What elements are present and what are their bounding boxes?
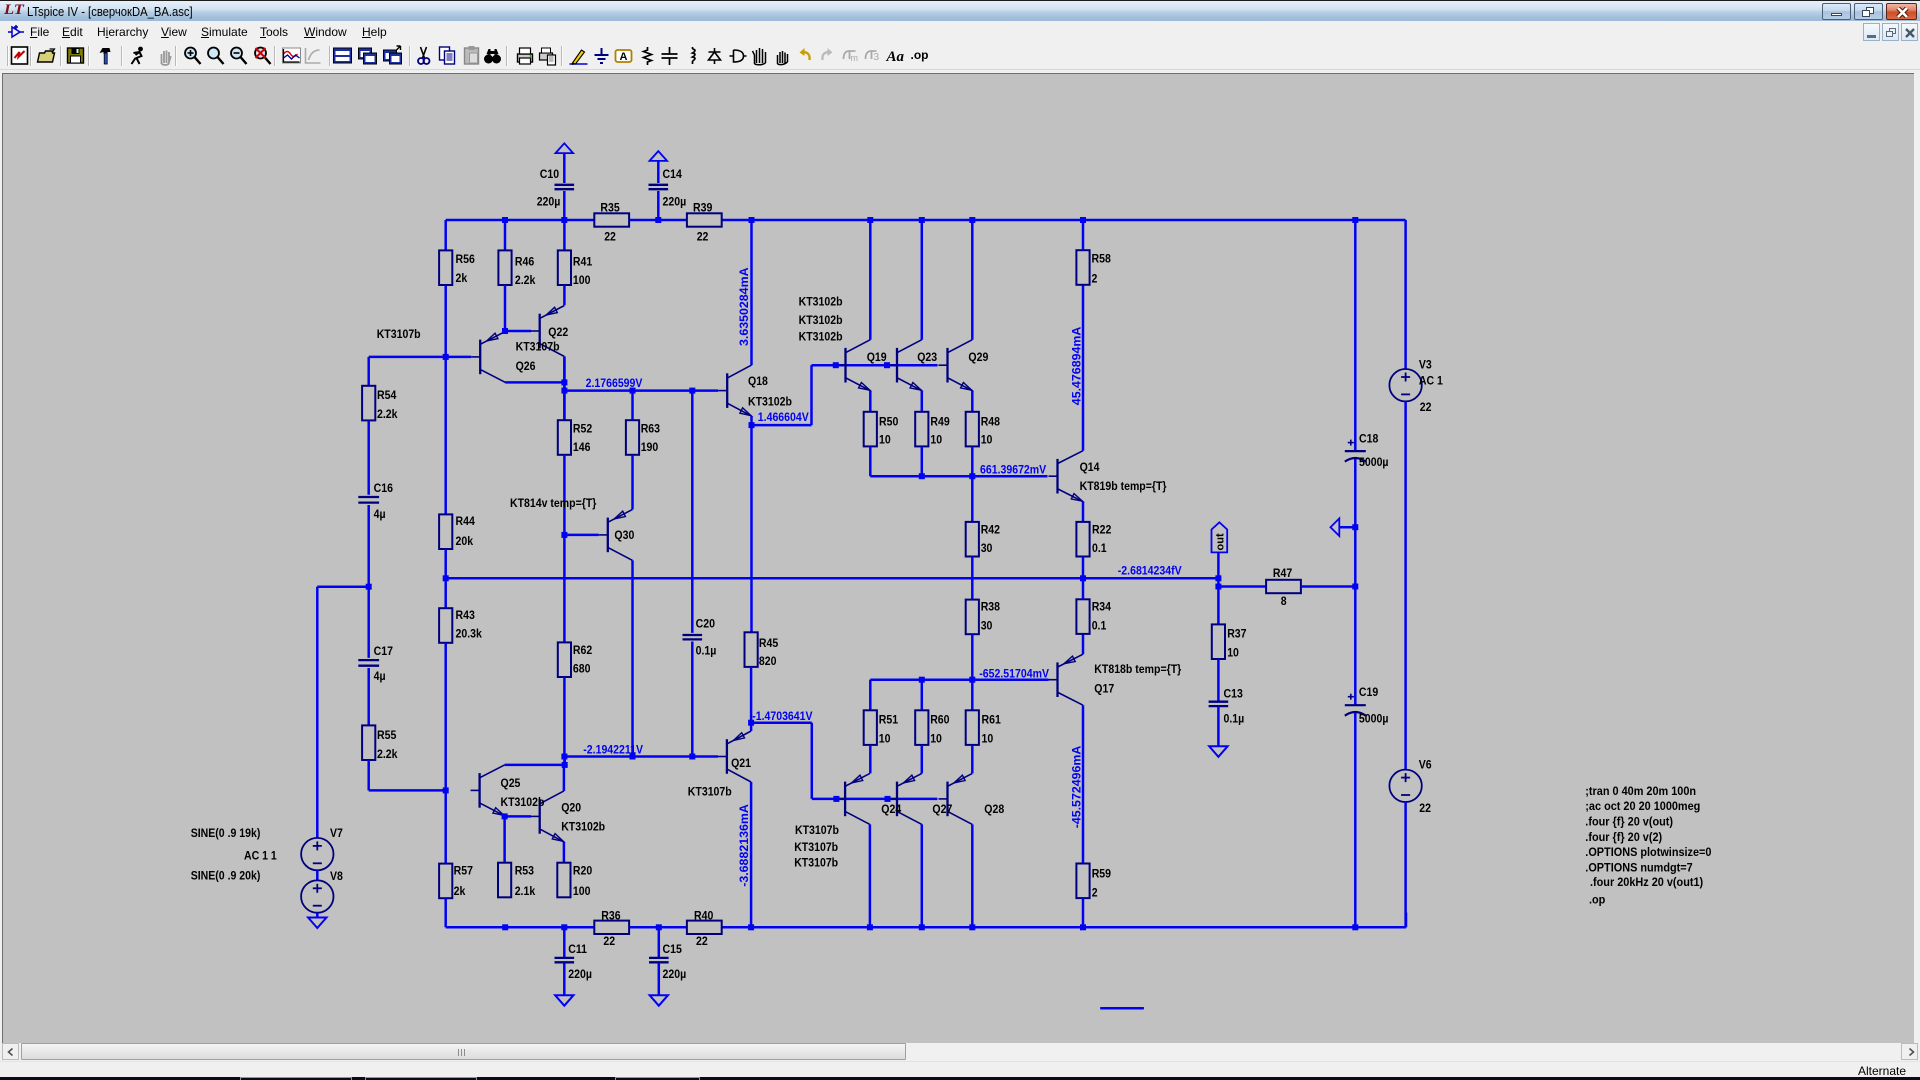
svg-text:3.6350284mA: 3.6350284mA: [737, 267, 751, 346]
svg-text:KT819b temp={T}: KT819b temp={T}: [1080, 480, 1167, 493]
svg-text:C18: C18: [1359, 433, 1379, 446]
svg-text:2: 2: [1092, 273, 1098, 286]
svg-text:3: 3: [874, 52, 880, 63]
svg-text:-1.4703641V: -1.4703641V: [752, 710, 813, 723]
svg-text:C19: C19: [1359, 687, 1378, 700]
svg-text:R53: R53: [515, 865, 534, 878]
svg-text:2: 2: [1092, 887, 1098, 900]
svg-text:220µ: 220µ: [663, 969, 687, 982]
svg-text:Q21: Q21: [731, 757, 751, 770]
svg-text:C20: C20: [696, 618, 715, 631]
svg-text:A: A: [620, 51, 628, 63]
svg-text:0.1: 0.1: [1092, 542, 1107, 555]
svg-text:C14: C14: [663, 168, 683, 181]
svg-text:KT3102b: KT3102b: [799, 331, 843, 344]
svg-text:KT3102b: KT3102b: [799, 314, 843, 327]
svg-text:AC 1: AC 1: [1419, 375, 1444, 388]
svg-text:Q14: Q14: [1080, 461, 1100, 474]
svg-text:820: 820: [759, 656, 777, 669]
svg-text:22: 22: [1420, 402, 1432, 415]
svg-text:10: 10: [930, 733, 942, 746]
svg-text:KT3107b: KT3107b: [516, 341, 560, 354]
svg-text:Q20: Q20: [561, 802, 581, 815]
svg-text:30: 30: [981, 620, 993, 633]
svg-text:0.1: 0.1: [1092, 620, 1107, 633]
svg-text:Q22: Q22: [548, 327, 568, 340]
svg-text:Q27: Q27: [932, 803, 952, 816]
svg-text:R42: R42: [981, 524, 1000, 537]
svg-text:R48: R48: [981, 416, 1001, 429]
svg-text:.op: .op: [1589, 893, 1605, 907]
svg-text:Q25: Q25: [501, 777, 521, 790]
svg-text:C13: C13: [1224, 688, 1243, 701]
svg-text:45.476894mA: 45.476894mA: [1070, 327, 1084, 406]
svg-text:;ac oct 20 20 1000meg: ;ac oct 20 20 1000meg: [1585, 799, 1700, 813]
svg-text:KT3107b: KT3107b: [794, 841, 838, 854]
svg-text:V8: V8: [330, 870, 343, 883]
svg-text:R44: R44: [456, 515, 476, 528]
svg-text:SINE(0 .9 19k): SINE(0 .9 19k): [191, 828, 261, 841]
svg-text:Q18: Q18: [748, 375, 768, 388]
svg-text:R43: R43: [456, 609, 475, 622]
svg-text:-2.6814234fV: -2.6814234fV: [1118, 565, 1182, 578]
svg-text:R55: R55: [377, 730, 397, 743]
svg-text:.OPTIONS numdgt=7: .OPTIONS numdgt=7: [1585, 861, 1692, 875]
svg-text:20k: 20k: [456, 536, 474, 549]
svg-text:R56: R56: [456, 254, 475, 267]
svg-text:KT3102b: KT3102b: [799, 296, 843, 309]
svg-text:0.1µ: 0.1µ: [1224, 713, 1245, 726]
svg-text:KT814v temp={T}: KT814v temp={T}: [510, 497, 597, 510]
svg-text:Q26: Q26: [516, 360, 536, 373]
svg-text:KT3102b: KT3102b: [748, 396, 792, 409]
svg-text:10: 10: [1227, 647, 1239, 660]
svg-text:Q17: Q17: [1094, 683, 1114, 696]
svg-text:10: 10: [879, 733, 891, 746]
svg-text:100: 100: [573, 274, 591, 287]
svg-text:R54: R54: [377, 389, 397, 402]
svg-text:.OPTIONS plotwinsize=0: .OPTIONS plotwinsize=0: [1585, 845, 1711, 859]
svg-text:V3: V3: [1419, 359, 1432, 372]
svg-text:.four 20kHz 20 v(out1): .four 20kHz 20 v(out1): [1590, 875, 1703, 889]
svg-text:22: 22: [696, 935, 708, 948]
svg-text:R35: R35: [600, 202, 620, 215]
svg-text:100: 100: [573, 885, 591, 898]
svg-text:;tran 0 40m 20m 100n: ;tran 0 40m 20m 100n: [1585, 784, 1696, 798]
svg-text:22: 22: [697, 231, 709, 244]
svg-text:R41: R41: [573, 256, 593, 269]
svg-text:0.1µ: 0.1µ: [696, 645, 717, 658]
svg-text:8: 8: [1281, 595, 1287, 608]
svg-text:KT3107b: KT3107b: [688, 786, 732, 799]
svg-text:R22: R22: [1092, 524, 1111, 537]
svg-text:Aa: Aa: [886, 49, 905, 65]
svg-text:20.3k: 20.3k: [456, 628, 483, 641]
svg-text:190: 190: [641, 441, 659, 454]
svg-text:Q19: Q19: [867, 351, 887, 364]
svg-text:SINE(0 .9 20k): SINE(0 .9 20k): [191, 870, 261, 883]
svg-text:R49: R49: [930, 416, 949, 429]
svg-text:R62: R62: [573, 644, 592, 657]
svg-text:4µ: 4µ: [374, 508, 386, 521]
svg-text:2k: 2k: [456, 272, 468, 285]
svg-text:2.2k: 2.2k: [515, 274, 536, 287]
svg-text:R36: R36: [601, 910, 620, 923]
svg-text:.four {f} 20 v(2): .four {f} 20 v(2): [1585, 830, 1662, 844]
svg-text:KT3102b: KT3102b: [501, 797, 545, 810]
svg-text:KT3107b: KT3107b: [795, 824, 839, 837]
svg-text:R58: R58: [1092, 253, 1112, 266]
svg-text:C10: C10: [540, 168, 559, 181]
svg-text:R20: R20: [573, 865, 592, 878]
svg-text:2.1k: 2.1k: [515, 885, 536, 898]
svg-text:R50: R50: [879, 416, 898, 429]
svg-text:22: 22: [1419, 802, 1431, 815]
svg-text:.op: .op: [911, 48, 929, 62]
svg-text:10: 10: [879, 434, 891, 447]
svg-text:10: 10: [982, 733, 994, 746]
svg-text:R40: R40: [694, 910, 713, 923]
svg-text:-652.51704mV: -652.51704mV: [979, 668, 1049, 681]
svg-text:C11: C11: [568, 944, 587, 957]
svg-text:R45: R45: [759, 637, 779, 650]
svg-text:R34: R34: [1092, 601, 1112, 614]
svg-text:Q29: Q29: [968, 351, 988, 364]
svg-text:R63: R63: [641, 423, 660, 436]
svg-text:2.2k: 2.2k: [377, 748, 398, 761]
svg-text:Q24: Q24: [881, 803, 901, 816]
svg-text:R39: R39: [693, 202, 712, 215]
svg-text:30: 30: [981, 542, 993, 555]
svg-text:680: 680: [573, 663, 591, 676]
svg-text:1.466604V: 1.466604V: [758, 412, 809, 425]
svg-text:R37: R37: [1227, 628, 1246, 641]
svg-text:146: 146: [573, 441, 591, 454]
svg-text:Q30: Q30: [614, 529, 634, 542]
svg-text:KT3107b: KT3107b: [377, 328, 421, 341]
svg-text:2.1766599V: 2.1766599V: [586, 377, 643, 390]
svg-text:R61: R61: [982, 714, 1002, 727]
svg-text:C16: C16: [374, 482, 393, 495]
svg-text:m: m: [851, 53, 859, 63]
svg-text:R47: R47: [1273, 568, 1292, 581]
svg-text:R38: R38: [981, 601, 1001, 614]
svg-text:C17: C17: [374, 645, 393, 658]
svg-text:R57: R57: [454, 865, 473, 878]
svg-text:out: out: [1215, 533, 1227, 550]
svg-text:V7: V7: [330, 828, 343, 841]
svg-text:22: 22: [604, 231, 616, 244]
svg-text:R59: R59: [1092, 868, 1111, 881]
svg-text:10: 10: [930, 434, 942, 447]
svg-text:220µ: 220µ: [663, 196, 687, 209]
svg-text:-45.572496mA: -45.572496mA: [1070, 746, 1084, 829]
svg-text:4µ: 4µ: [374, 670, 386, 683]
svg-text:KT3102b: KT3102b: [561, 821, 605, 834]
svg-text:-2.1942211V: -2.1942211V: [583, 744, 643, 757]
svg-text:5000µ: 5000µ: [1359, 456, 1389, 469]
svg-text:-3.6882136mA: -3.6882136mA: [737, 804, 751, 887]
svg-text:AC 1 1: AC 1 1: [244, 850, 277, 863]
svg-text:R51: R51: [879, 714, 899, 727]
svg-text:10: 10: [981, 434, 993, 447]
svg-text:220µ: 220µ: [537, 196, 561, 209]
svg-text:KT818b temp={T}: KT818b temp={T}: [1094, 663, 1181, 676]
svg-text:220µ: 220µ: [568, 969, 592, 982]
svg-text:V6: V6: [1419, 759, 1432, 772]
svg-text:22: 22: [603, 935, 615, 948]
svg-text:R52: R52: [573, 423, 592, 436]
svg-text:C15: C15: [663, 944, 683, 957]
svg-text:.four {f} 20 v(out): .four {f} 20 v(out): [1585, 815, 1673, 829]
svg-text:R46: R46: [515, 256, 534, 269]
svg-text:2k: 2k: [454, 885, 466, 898]
svg-text:5000µ: 5000µ: [1359, 713, 1389, 726]
svg-text:2.2k: 2.2k: [377, 408, 398, 421]
svg-text:KT3107b: KT3107b: [794, 857, 838, 870]
svg-text:661.39672mV: 661.39672mV: [980, 464, 1046, 477]
svg-text:Q28: Q28: [984, 803, 1004, 816]
svg-text:Q23: Q23: [917, 351, 937, 364]
svg-text:R60: R60: [930, 714, 949, 727]
